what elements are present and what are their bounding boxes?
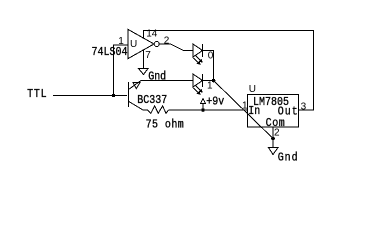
LED D0 light arrows — [196, 56, 202, 62]
wire Com pin down to ground — [272, 127, 274, 148]
svg-text:Gnd: Gnd — [148, 71, 166, 84]
wire TTL input horizontal — [53, 95, 127, 97]
wire pin 14 up, across top, down right side to Out pin 3 — [144, 31, 314, 111]
svg-text:3: 3 — [301, 101, 307, 112]
transistor emitter lead — [129, 81, 194, 90]
diode LED D0 — [193, 44, 203, 57]
transistor collector lead — [129, 101, 144, 110]
svg-text:Gnd: Gnd — [278, 152, 299, 165]
node +9v junction — [201, 108, 205, 112]
svg-text:U: U — [249, 84, 256, 95]
op-amp U1 output bubble — [154, 42, 159, 47]
svg-text:7: 7 — [145, 50, 151, 61]
svg-text:U: U — [130, 39, 137, 50]
wire inverter output pin2 to LED D0 anode — [159, 44, 193, 51]
svg-text:1: 1 — [207, 81, 213, 92]
svg-text:1: 1 — [118, 36, 124, 47]
op-amp U1 inverter triangle — [128, 30, 154, 59]
svg-text:74LS04: 74LS04 — [92, 47, 128, 60]
node junction TTL/base/inverter — [112, 94, 115, 97]
ground symbol below regulator — [269, 148, 279, 155]
wire D1 cathode to junction — [203, 80, 214, 82]
node LED cathode junction — [212, 79, 216, 83]
svg-text:+9v: +9v — [206, 96, 224, 109]
svg-text:In: In — [248, 106, 260, 119]
wire D0 cathode to junction — [203, 51, 214, 81]
svg-text:TTL: TTL — [27, 88, 47, 101]
transistor Q1 BC337 base bar — [128, 82, 130, 107]
resistor R1 zigzag — [143, 106, 169, 113]
node ground junction — [271, 137, 275, 141]
wire pin 7 ground stub — [143, 50, 145, 69]
wire junction up to inverter input — [114, 45, 129, 95]
regulator U2 LM7805 box — [248, 95, 299, 128]
transistor emitter arrow (open) — [133, 83, 140, 89]
LED D1 light arrows — [196, 86, 202, 92]
svg-text:75 ohm: 75 ohm — [146, 119, 185, 132]
power +9v symbol — [202, 104, 204, 111]
svg-text:2: 2 — [164, 36, 170, 47]
ground symbol at pin 7 — [139, 69, 149, 75]
svg-text:1: 1 — [242, 100, 248, 111]
svg-text:0: 0 — [208, 51, 214, 62]
wire diagonal from LED junction to ground node — [214, 81, 274, 139]
diode LED D1 — [193, 74, 203, 87]
svg-text:2: 2 — [274, 127, 280, 138]
wire +9v rail resistor to regulator In — [169, 109, 248, 111]
